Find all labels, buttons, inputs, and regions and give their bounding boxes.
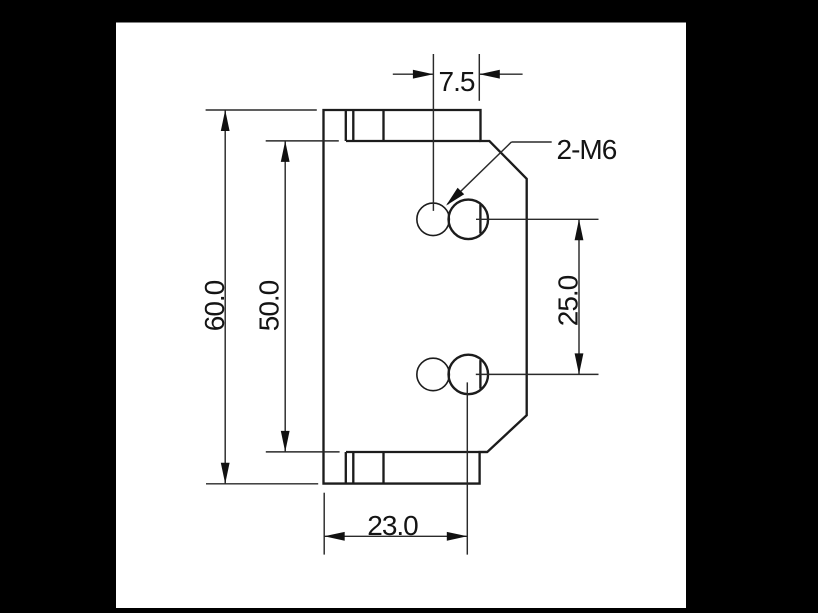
svg-text:2-M6: 2-M6: [557, 134, 617, 165]
svg-text:23.0: 23.0: [367, 510, 418, 541]
svg-text:25.0: 25.0: [553, 275, 584, 326]
svg-text:50.0: 50.0: [254, 280, 285, 331]
svg-text:7.5: 7.5: [439, 66, 475, 97]
svg-text:60.0: 60.0: [199, 280, 230, 331]
